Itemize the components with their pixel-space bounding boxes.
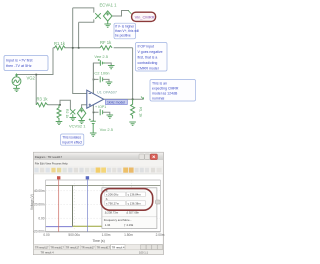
wire: feedback vertical RF right to output	[132, 48, 134, 99]
cursor a (red)	[58, 179, 60, 232]
svg-text:Time (s): Time (s)	[92, 239, 104, 243]
svg-text:ECVA1 1: ECVA1 1	[100, 3, 118, 8]
ground (Vcc)	[90, 127, 97, 137]
ground (ECVA1)	[104, 21, 111, 27]
svg-text:2.00m: 2.00m	[156, 233, 165, 237]
svg-text:x 790.27m: x 790.27m	[106, 201, 120, 205]
annotation: V- higher text box	[114, 23, 139, 39]
wire: C3 branch	[93, 112, 109, 115]
svg-text:TR result17: TR result17	[50, 245, 64, 249]
ground (C2)	[106, 82, 113, 85]
svg-text:40.00m: 40.00m	[34, 189, 45, 193]
svg-text:100 1:1: 100 1:1	[139, 250, 148, 254]
pin VF1 tick	[141, 97, 144, 100]
svg-text:VG2: VG2	[27, 76, 36, 81]
controlled source VCVS2 diamond	[77, 108, 85, 119]
cursor data panel	[102, 188, 157, 229]
annotation: red ellipse	[101, 189, 153, 211]
svg-text:model as 124dB: model as 124dB	[152, 92, 178, 96]
wire: inverting input vertical (ECVA1 sense A)	[73, 8, 87, 94]
trace: step edge	[72, 185, 74, 226]
svg-text:R3 1k: R3 1k	[37, 96, 49, 101]
svg-text:This is an: This is an	[152, 82, 167, 86]
wire: C2 branch	[93, 79, 109, 82]
trace: input low (blue)	[46, 226, 73, 228]
svg-text:y 136.38m: y 136.38m	[128, 201, 142, 205]
svg-text:CMRR model: CMRR model	[138, 67, 159, 71]
y tick labels	[33, 189, 45, 233]
resistor R1	[55, 46, 66, 50]
svg-text:contradicting: contradicting	[138, 61, 158, 65]
annotation: input text box	[4, 56, 48, 71]
svg-text:Δ 927.08n: Δ 927.08n	[126, 211, 139, 215]
wire: left vertical from R1 down to VG2 row	[17, 48, 54, 75]
svg-text:If V- is higher: If V- is higher	[115, 24, 135, 28]
svg-text:TR result 4: TR result 4	[41, 250, 55, 254]
svg-text:1.34: 1.34	[105, 223, 111, 227]
status bar	[34, 250, 163, 255]
svg-text:TR result17: TR result17	[66, 245, 80, 249]
menu bar	[34, 160, 163, 166]
wire: op-amp output net	[104, 98, 144, 100]
svg-text:1.00m: 1.00m	[102, 233, 111, 237]
svg-text:RF 1k: RF 1k	[100, 40, 112, 45]
wire: Vee battery to ground	[105, 63, 111, 66]
window frame	[33, 152, 163, 254]
svg-text:TR result17: TR result17	[97, 245, 111, 249]
svg-text:0.00: 0.00	[43, 233, 49, 237]
voltage generator VG2	[12, 74, 21, 86]
ground (C3)	[107, 115, 114, 118]
svg-text:R2 1k: R2 1k	[65, 109, 69, 118]
toolbar icons	[34, 168, 161, 173]
node Vin_CMRR callout	[132, 12, 156, 21]
svg-text:20.00m: 20.00m	[34, 203, 45, 207]
svg-text:ƒ 4.19k: ƒ 4.19k	[124, 223, 134, 227]
svg-text:than V+, this will: than V+, this will	[115, 29, 139, 33]
svg-text:+ IOP1: + IOP1	[95, 105, 106, 109]
svg-text:TR result17: TR result17	[81, 245, 95, 249]
trace: green low segment	[73, 225, 103, 227]
x axis	[46, 231, 161, 233]
ground (R2)	[56, 121, 63, 125]
wire: vertical from VG2 row down to R3	[35, 75, 37, 105]
svg-text:Voltage (V): Voltage (V)	[30, 194, 34, 210]
title bar	[34, 153, 163, 160]
node A junction dots	[35, 47, 133, 113]
resistor R3	[36, 103, 47, 107]
svg-text:RL 1k: RL 1k	[139, 107, 144, 117]
svg-text:R1 1k: R1 1k	[54, 41, 66, 46]
svg-text:Frequency and More...: Frequency and More...	[104, 218, 132, 222]
capacitor C2	[100, 76, 102, 82]
toolbar	[34, 166, 163, 174]
svg-text:If OP input: If OP input	[138, 45, 155, 49]
svg-text:Vcc 2.5: Vcc 2.5	[100, 127, 114, 132]
svg-text:nominal: nominal	[152, 97, 164, 101]
svg-text:Vee 2.5: Vee 2.5	[94, 54, 108, 59]
ground (RL)	[129, 122, 136, 125]
svg-text:This isolates: This isolates	[62, 136, 81, 140]
ground (VCVS2 input)	[70, 118, 77, 121]
wire: R3 output to VCVS2 input node	[48, 100, 71, 109]
svg-text:input R effect: input R effect	[62, 140, 82, 144]
resistor RF	[100, 46, 112, 50]
resistor RL (vertical)	[131, 99, 135, 118]
wire: ECVA1 input port leads	[73, 8, 94, 22]
svg-text:U1 OPA607: U1 OPA607	[97, 91, 117, 95]
panel grip button	[155, 200, 160, 204]
resistor R2 (vertical)	[57, 105, 61, 121]
cursor b (blue)	[86, 179, 88, 232]
svg-text:1.50m: 1.50m	[124, 233, 133, 237]
battery Vee 2.5	[98, 59, 106, 66]
svg-text:Diagram : TR result17: Diagram : TR result17	[35, 155, 63, 159]
svg-text:TR result 4: TR result 4	[112, 245, 125, 249]
wire: ECVA1 output to Vin_CMRR	[112, 11, 129, 17]
ground (VCVS2 output)	[78, 119, 85, 124]
svg-text:V goes negative: V goes negative	[138, 50, 163, 54]
wire: main top horizontal net y=47.8	[53, 47, 133, 49]
gridlines	[46, 180, 161, 232]
VCVS2 input port X	[70, 109, 75, 117]
svg-text:x 206.06u: x 206.06u	[106, 193, 119, 197]
battery Vcc 2.5 (vertical)	[89, 119, 96, 127]
controlled source ECVA1 input X	[95, 13, 101, 19]
annotation: isolates text box	[61, 134, 84, 145]
svg-text:1kHz model: 1kHz model	[107, 101, 125, 105]
controlled source ECVA1 diamond	[103, 11, 112, 21]
svg-text:then -7V at 5Hz: then -7V at 5Hz	[6, 64, 32, 68]
plot client area	[34, 174, 162, 244]
svg-text:Vin_CMRR: Vin_CMRR	[135, 15, 155, 20]
annotation: OP input text box	[136, 43, 168, 72]
svg-text:Δ 238.73m: Δ 238.73m	[105, 211, 119, 215]
svg-text:0.00: 0.00	[38, 216, 44, 220]
ground (VG2)	[13, 86, 20, 92]
plot frame	[46, 180, 161, 232]
wire: ECVA1 sense B vertical	[78, 22, 80, 48]
wire: positive supply vertical	[93, 63, 99, 94]
svg-text:expecting CMRR: expecting CMRR	[152, 87, 179, 91]
tab bar	[34, 244, 163, 249]
svg-text:be positive: be positive	[115, 34, 131, 38]
svg-text:500.00u: 500.00u	[68, 233, 80, 237]
svg-text:C2 100n: C2 100n	[94, 70, 109, 75]
svg-text:TR result17: TR result17	[35, 245, 49, 249]
op-amp U1	[87, 63, 104, 113]
svg-text:y 136.84m: y 136.84m	[128, 193, 142, 197]
capacitor C3	[100, 109, 102, 115]
wire: VCVS2 output to + input	[82, 105, 87, 108]
svg-text:File Edit View Process Help: File Edit View Process Help	[35, 162, 68, 166]
trace: output high line	[46, 184, 160, 186]
svg-text:Input is +7V first: Input is +7V first	[6, 58, 33, 62]
pin tick at Vin_CMRR	[128, 11, 131, 15]
output net label (selected)	[106, 100, 128, 105]
wire: negative supply vertical	[92, 105, 94, 121]
x tick labels	[43, 233, 164, 237]
svg-text:first, that is a: first, that is a	[138, 56, 158, 60]
window buttons	[139, 154, 144, 159]
svg-text:VCVS2 1: VCVS2 1	[69, 124, 86, 129]
annotation: expecting CMRR text box	[150, 80, 196, 102]
ground (Vee)	[108, 66, 115, 69]
